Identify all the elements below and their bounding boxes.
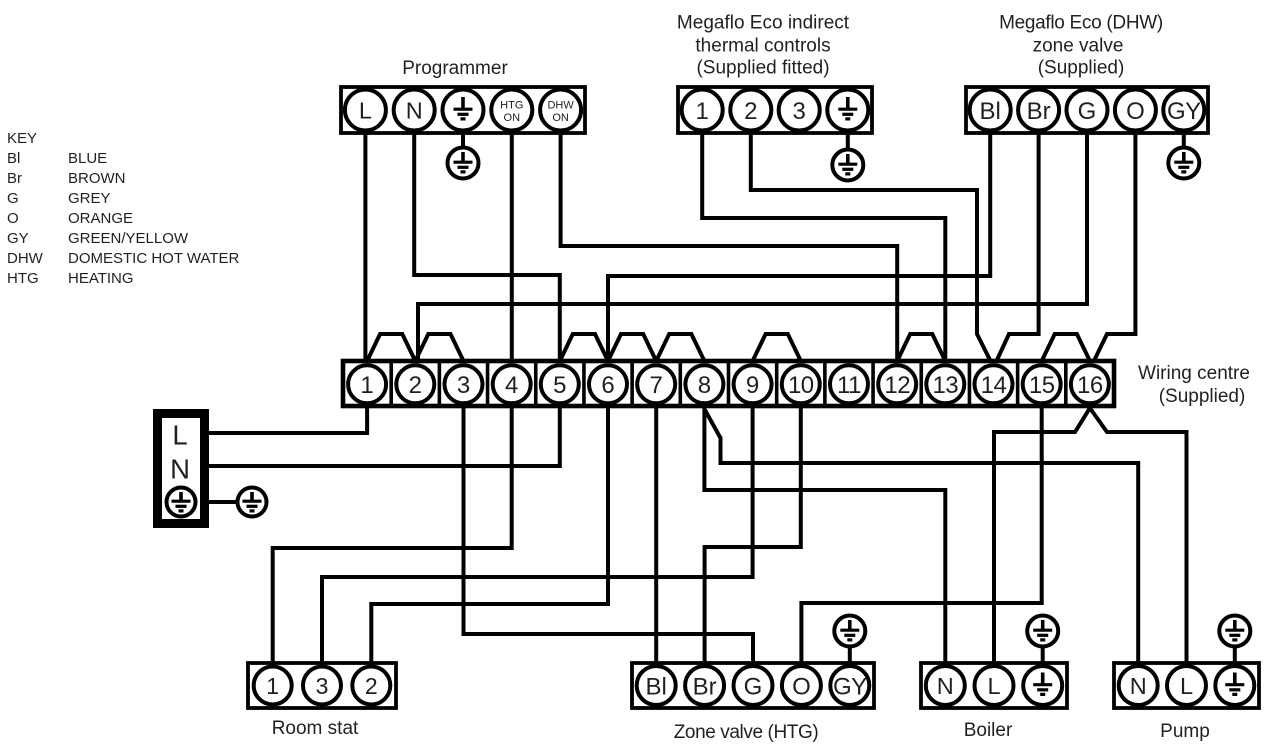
svg-text:BLUE: BLUE	[68, 150, 107, 167]
wiring centre divider 12|13	[919, 361, 923, 406]
wiring centre divider 5|6	[582, 361, 586, 406]
svg-text:Bl: Bl	[646, 673, 667, 700]
wire thermal 2 to terminal 14	[751, 133, 991, 361]
dhw valve terminal GY	[1163, 90, 1204, 131]
wire supply N to terminal 5	[209, 406, 560, 466]
svg-text:Megaflo Eco indirect: Megaflo Eco indirect	[677, 13, 850, 34]
svg-text:(Supplied): (Supplied)	[1038, 58, 1125, 79]
wiring centre terminal 15	[1023, 365, 1061, 403]
wire programmer HTG ON to terminal 4	[510, 133, 514, 361]
wiring centre divider 8|9	[727, 361, 731, 406]
wire dhw GY to earth symbol	[1182, 133, 1186, 149]
programmer terminal earth	[443, 90, 484, 131]
wire terminal 6 to room stat 2	[371, 406, 608, 663]
svg-text:Bl: Bl	[980, 98, 1001, 125]
wire terminal 8 jog to pump N	[704, 406, 1138, 663]
wiring centre terminal 1	[348, 365, 386, 403]
svg-text:HTG: HTG	[7, 270, 39, 287]
label Wiring centre (Supplied)	[1138, 363, 1250, 407]
svg-text:L: L	[987, 673, 1000, 699]
wiring centre divider 7|8	[679, 361, 683, 406]
programmer terminal L	[345, 90, 386, 131]
label Megaflo Eco (DHW) zone valve (Supplied)	[999, 13, 1163, 79]
wiring centre divider 6|7	[630, 361, 634, 406]
wiring centre strip box	[343, 361, 1114, 406]
svg-text:2: 2	[744, 98, 757, 125]
svg-text:O: O	[7, 210, 19, 227]
svg-text:Programmer: Programmer	[402, 58, 508, 79]
dhw valve terminal Bl	[970, 90, 1011, 131]
svg-text:Zone valve (HTG): Zone valve (HTG)	[674, 722, 819, 743]
pump terminal L	[1167, 666, 1206, 705]
room stat terminal 1	[254, 667, 292, 705]
svg-text:2: 2	[409, 372, 422, 399]
programmer terminal HTG ON	[491, 90, 532, 131]
svg-text:15: 15	[1029, 372, 1055, 399]
zone valve terminal GY	[830, 666, 869, 705]
wiring centre terminal 13	[926, 365, 964, 403]
earth symbol above boiler	[1027, 616, 1058, 647]
svg-text:4: 4	[505, 372, 518, 399]
svg-text:Boiler: Boiler	[964, 720, 1013, 741]
boiler terminal L	[975, 666, 1014, 705]
svg-text:3: 3	[316, 673, 329, 699]
thermal controls box	[678, 87, 872, 133]
wire terminal 15 to zone valve O	[801, 406, 1041, 663]
svg-text:O: O	[1126, 98, 1145, 125]
thermal terminal 1	[682, 90, 723, 131]
svg-text:7: 7	[650, 372, 663, 399]
svg-text:DOMESTIC HOT WATER: DOMESTIC HOT WATER	[68, 250, 240, 267]
zone valve terminal G	[734, 666, 773, 705]
svg-text:HEATING: HEATING	[68, 270, 134, 287]
thermal terminal earth	[827, 90, 868, 131]
pump terminal N	[1119, 666, 1158, 705]
boiler terminal earth	[1023, 666, 1062, 705]
svg-text:ORANGE: ORANGE	[68, 210, 133, 227]
room stat terminal 2	[352, 667, 390, 705]
wiring centre divider 2|3	[438, 361, 442, 406]
svg-text:N: N	[406, 98, 423, 124]
room stat terminal 3	[303, 667, 341, 705]
key text block	[7, 130, 240, 287]
svg-text:DHW: DHW	[7, 250, 44, 267]
wiring centre terminal 12	[878, 365, 916, 403]
svg-text:BROWN: BROWN	[68, 170, 126, 187]
wiring centre divider 1|2	[389, 361, 393, 406]
svg-text:G: G	[744, 673, 763, 700]
svg-text:G: G	[7, 190, 19, 207]
svg-text:KEY: KEY	[7, 130, 37, 147]
wiring centre terminal 2	[396, 365, 434, 403]
svg-text:3: 3	[793, 98, 806, 125]
svg-text:ON: ON	[504, 112, 521, 124]
svg-text:HTG: HTG	[500, 100, 523, 112]
supply earth terminal	[167, 488, 196, 517]
bridge link terminals 15-16	[1042, 334, 1090, 361]
svg-text:Bl: Bl	[7, 150, 20, 167]
svg-text:(Supplied): (Supplied)	[1159, 386, 1246, 407]
wire terminal 4 to room stat 1	[273, 406, 512, 663]
wire supply L to terminal 1	[209, 406, 367, 433]
zone valve terminal O	[782, 666, 821, 705]
room stat box	[248, 663, 396, 708]
svg-text:Br: Br	[693, 673, 717, 700]
pump terminal earth	[1215, 666, 1254, 705]
svg-text:2: 2	[365, 673, 378, 699]
wiring centre divider 4|5	[534, 361, 538, 406]
svg-text:zone valve: zone valve	[1033, 36, 1124, 57]
wiring centre terminal 7	[637, 365, 675, 403]
wiring centre divider 3|4	[486, 361, 490, 406]
wire thermal earth to symbol	[846, 133, 850, 151]
svg-text:(Supplied fitted): (Supplied fitted)	[696, 58, 829, 79]
svg-text:GY: GY	[7, 230, 29, 247]
wiring centre terminal 14	[975, 365, 1013, 403]
bridge link terminals 1-2	[367, 334, 415, 361]
wiring centre terminal 8	[685, 365, 723, 403]
svg-text:DHW: DHW	[547, 100, 574, 112]
svg-text:G: G	[1078, 98, 1097, 125]
svg-text:14: 14	[981, 372, 1007, 399]
svg-text:1: 1	[696, 98, 709, 125]
wire thermal 1 to terminal 13	[702, 133, 945, 361]
svg-text:L: L	[1180, 673, 1193, 699]
svg-text:N: N	[170, 454, 190, 485]
bridge link terminals 2-3	[415, 334, 463, 361]
boiler box	[921, 663, 1067, 708]
mains supply box	[158, 414, 205, 524]
bridge link terminals 9-10	[753, 334, 801, 361]
svg-text:L: L	[172, 420, 187, 451]
svg-text:16: 16	[1077, 372, 1103, 399]
svg-text:GY: GY	[1167, 98, 1201, 125]
wire dhw O to terminal 16	[1094, 133, 1136, 361]
dhw valve terminal O	[1115, 90, 1156, 131]
thermal terminal 3	[779, 90, 820, 131]
svg-text:Megaflo Eco (DHW): Megaflo Eco (DHW)	[999, 13, 1163, 34]
earth symbol above zone valve GY	[834, 616, 865, 647]
wiring centre terminal 10	[782, 365, 820, 403]
wire programmer N to terminal 5	[414, 133, 560, 361]
wire dhw Bl to terminal 6	[608, 133, 990, 361]
zone valve terminal Bl	[637, 666, 676, 705]
wiring centre divider 11|12	[871, 361, 875, 406]
wire boiler earth symbol stem	[1041, 647, 1045, 664]
wire terminal 7 to zone valve Bl	[654, 406, 658, 663]
zone valve htg box	[632, 663, 874, 708]
svg-text:N: N	[1130, 673, 1147, 699]
svg-text:8: 8	[698, 372, 711, 399]
wire supply earth to external symbol	[209, 500, 238, 504]
wire terminal 3 to zone valve G	[464, 406, 754, 663]
wire programmer earth to symbol	[461, 133, 465, 149]
wiring centre terminal 3	[445, 365, 483, 403]
wire dhw Br to terminal 14	[997, 133, 1039, 361]
wiring centre terminal 16	[1071, 365, 1109, 403]
earth symbol below programmer	[448, 148, 479, 179]
svg-text:13: 13	[932, 372, 958, 399]
programmer terminal DHW ON	[540, 90, 581, 131]
bridge link terminals 12-13	[897, 334, 945, 361]
wire zone valve earth symbol stem	[848, 647, 852, 664]
wire programmer L to terminal 1	[363, 133, 367, 361]
dhw valve terminal G	[1067, 90, 1108, 131]
svg-text:5: 5	[553, 372, 566, 399]
svg-text:Br: Br	[1027, 98, 1051, 125]
wiring centre terminal 6	[589, 365, 627, 403]
programmer box	[341, 87, 585, 133]
svg-text:1: 1	[360, 372, 373, 399]
svg-text:3: 3	[457, 372, 470, 399]
programmer terminal N	[394, 90, 435, 131]
wire programmer DHW ON to terminal 12	[561, 133, 898, 361]
wiring centre divider 13|14	[968, 361, 972, 406]
zone valve terminal Br	[685, 666, 724, 705]
external earth symbol beside supply	[238, 488, 267, 517]
wiring centre terminal 9	[734, 365, 772, 403]
svg-text:N: N	[937, 673, 954, 699]
svg-text:GREY: GREY	[68, 190, 111, 207]
svg-text:O: O	[792, 673, 811, 700]
wire terminal 16 to boiler L	[994, 406, 1090, 663]
svg-text:GREEN/YELLOW: GREEN/YELLOW	[68, 230, 189, 247]
svg-text:Room stat: Room stat	[272, 718, 359, 739]
dhw zone valve box	[966, 87, 1208, 133]
boiler terminal N	[926, 666, 965, 705]
bridge link terminals 5-6	[560, 334, 608, 361]
earth symbol above pump	[1219, 616, 1250, 647]
wiring centre divider 14|15	[1016, 361, 1020, 406]
wiring centre terminal 5	[541, 365, 579, 403]
thermal terminal 2	[730, 90, 771, 131]
svg-text:6: 6	[601, 372, 614, 399]
svg-text:1: 1	[266, 673, 279, 699]
svg-text:ON: ON	[552, 112, 569, 124]
dhw valve terminal Br	[1018, 90, 1059, 131]
earth symbol below thermal controls	[832, 150, 863, 181]
earth symbol below dhw valve GY	[1168, 148, 1199, 179]
wiring centre terminal 4	[493, 365, 531, 403]
svg-text:12: 12	[884, 372, 910, 399]
svg-text:Wiring centre: Wiring centre	[1138, 363, 1250, 384]
svg-text:GY: GY	[833, 673, 867, 700]
bridge link terminals 7-8	[656, 334, 704, 361]
wiring centre divider 10|11	[823, 361, 827, 406]
wire pump earth symbol stem	[1233, 647, 1237, 664]
svg-text:Br: Br	[7, 170, 22, 187]
pump box	[1114, 663, 1259, 708]
wire terminal 9 to room stat 3	[322, 406, 753, 663]
wiring centre divider 9|10	[775, 361, 779, 406]
wire terminal 8 to boiler N	[704, 406, 945, 663]
svg-text:10: 10	[788, 372, 814, 399]
svg-text:L: L	[359, 98, 372, 124]
svg-text:thermal controls: thermal controls	[695, 36, 830, 57]
label Megaflo Eco indirect thermal controls (Supplied fitted)	[677, 13, 850, 79]
wire dhw G to terminal 2	[418, 133, 1087, 361]
svg-text:11: 11	[837, 372, 861, 399]
wire terminal 16 to pump L	[1090, 406, 1187, 663]
wiring centre terminal 11	[830, 365, 868, 403]
bridge link terminals 6-7	[608, 334, 656, 361]
svg-text:Pump: Pump	[1160, 721, 1210, 742]
wire terminal 10 to zone valve Br	[705, 406, 801, 663]
wiring centre divider 15|16	[1064, 361, 1068, 406]
svg-text:9: 9	[746, 372, 759, 399]
